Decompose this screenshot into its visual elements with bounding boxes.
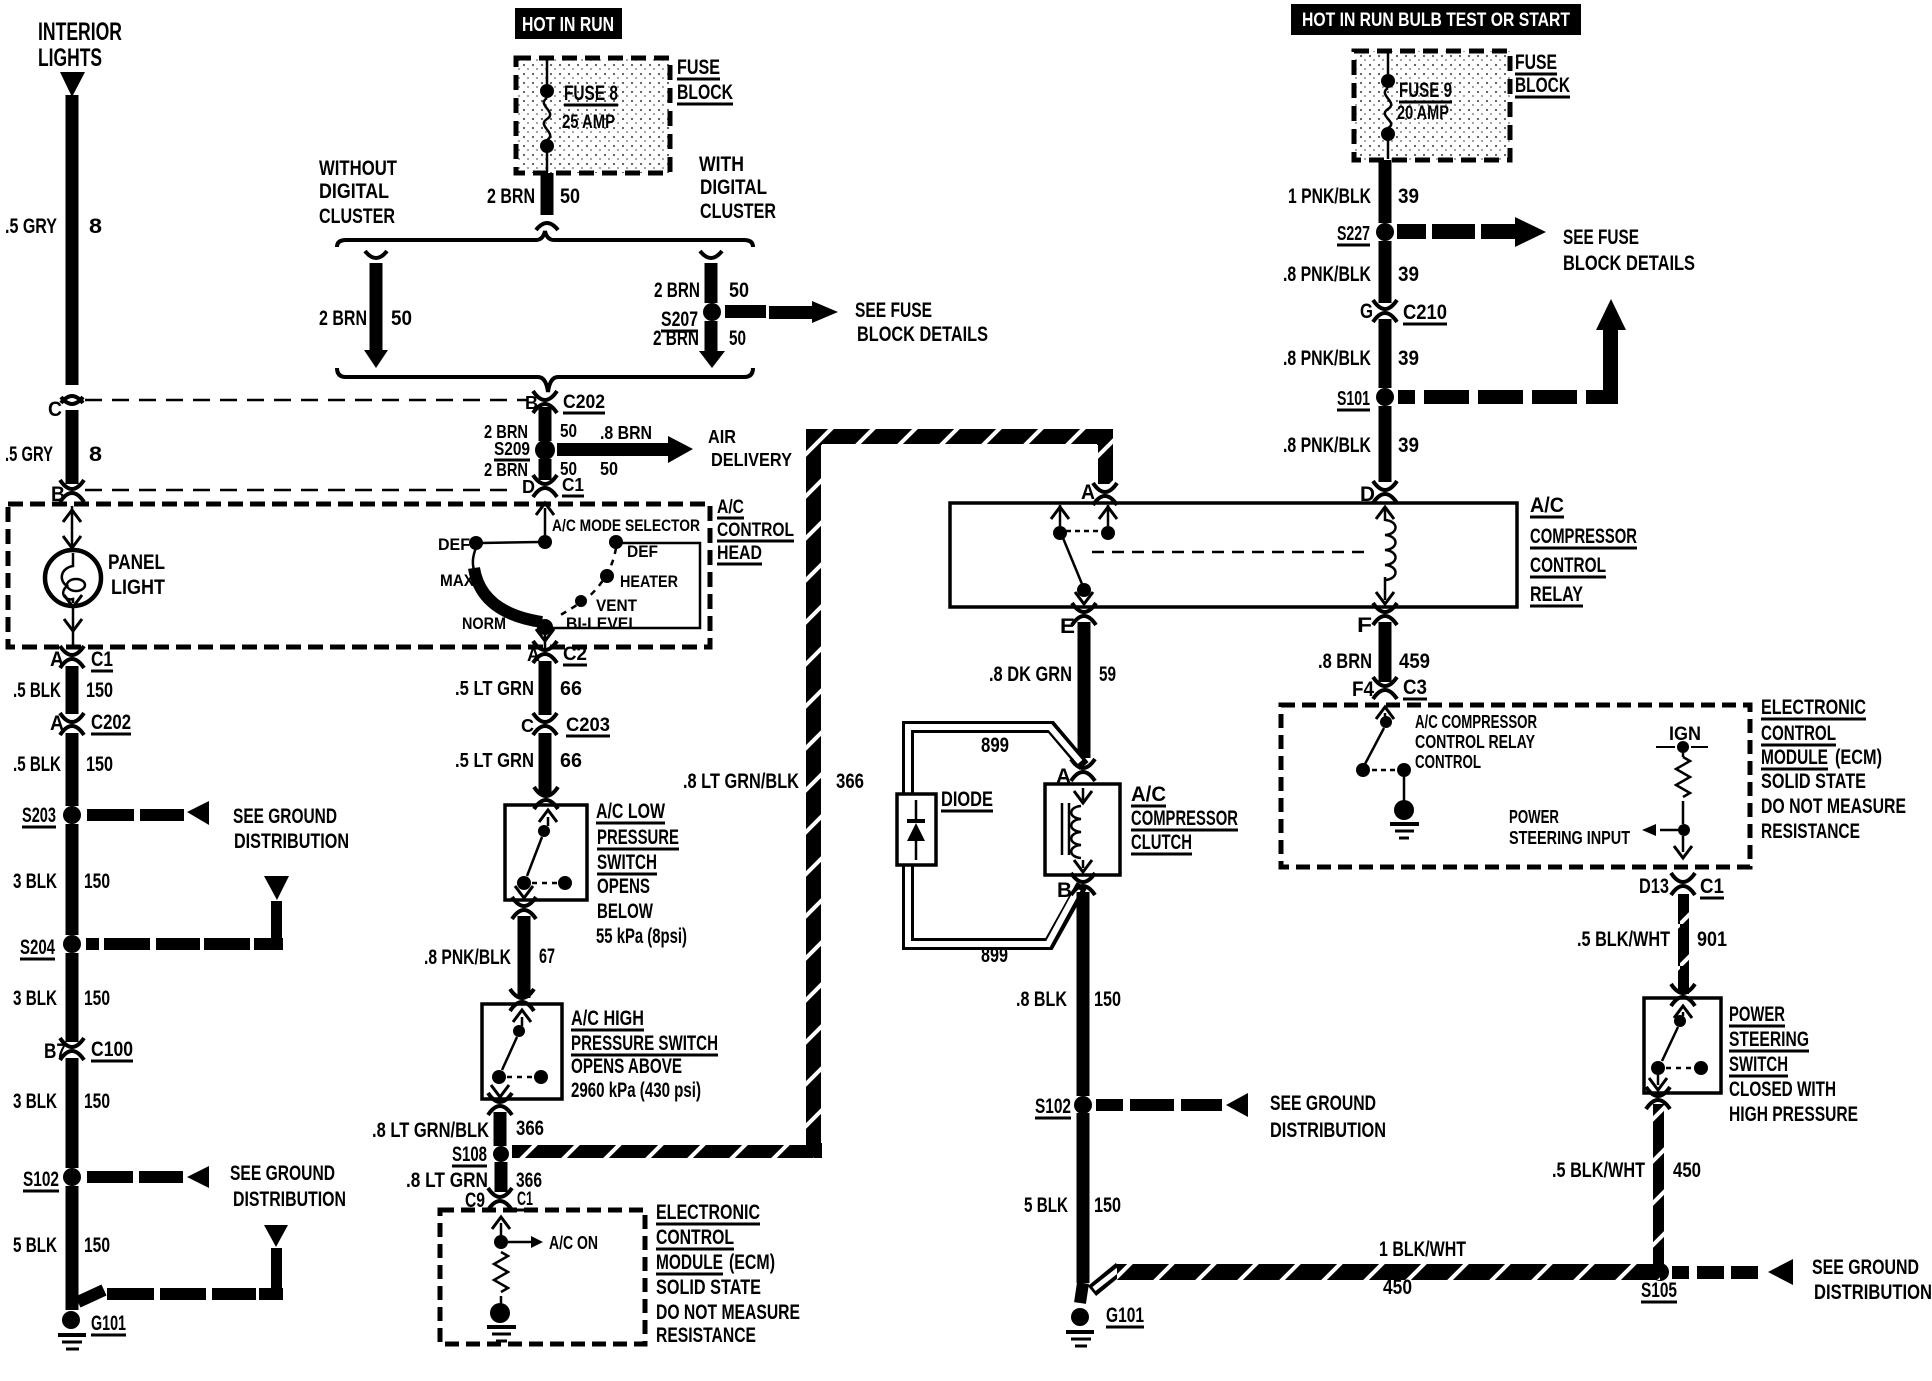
svg-text:A/C: A/C bbox=[1530, 494, 1564, 517]
svg-text:FUSE 9: FUSE 9 bbox=[1399, 79, 1452, 102]
svg-text:DEF: DEF bbox=[627, 542, 658, 561]
svg-text:PANEL: PANEL bbox=[108, 551, 165, 574]
svg-text:B7: B7 bbox=[44, 1040, 66, 1063]
svg-text:CONTROL: CONTROL bbox=[1415, 752, 1481, 772]
svg-text:C1: C1 bbox=[91, 648, 113, 671]
svg-text:8: 8 bbox=[89, 215, 102, 238]
svg-text:DELIVERY: DELIVERY bbox=[711, 450, 792, 470]
svg-text:C: C bbox=[48, 398, 62, 421]
svg-text:.8 PNK/BLK: .8 PNK/BLK bbox=[424, 946, 511, 969]
svg-text:899: 899 bbox=[981, 734, 1009, 757]
svg-text:D: D bbox=[522, 477, 535, 497]
svg-text:C210: C210 bbox=[1403, 301, 1447, 324]
svg-text:50: 50 bbox=[729, 279, 749, 302]
svg-text:901: 901 bbox=[1697, 928, 1727, 951]
svg-text:CLUSTER: CLUSTER bbox=[319, 205, 395, 228]
svg-text:CONTROL RELAY: CONTROL RELAY bbox=[1415, 732, 1535, 752]
svg-text:STEERING: STEERING bbox=[1729, 1028, 1809, 1051]
svg-text:ELECTRONIC: ELECTRONIC bbox=[1761, 696, 1866, 719]
svg-text:VENT: VENT bbox=[596, 596, 638, 615]
svg-text:366: 366 bbox=[516, 1117, 544, 1140]
svg-text:HEATER: HEATER bbox=[620, 572, 678, 591]
svg-text:.8 BRN: .8 BRN bbox=[1318, 650, 1372, 673]
svg-text:.8 LT GRN/BLK: .8 LT GRN/BLK bbox=[683, 770, 799, 793]
svg-text:150: 150 bbox=[1094, 1194, 1121, 1217]
svg-text:.8 BRN: .8 BRN bbox=[600, 423, 652, 443]
svg-text:.5 LT GRN: .5 LT GRN bbox=[455, 750, 534, 772]
svg-text:66: 66 bbox=[560, 678, 582, 700]
svg-text:DEF: DEF bbox=[438, 535, 470, 554]
svg-text:SEE GROUND: SEE GROUND bbox=[233, 805, 337, 828]
svg-text:INTERIOR: INTERIOR bbox=[38, 18, 122, 46]
svg-text:C1: C1 bbox=[562, 475, 584, 495]
svg-text:A/C MODE SELECTOR: A/C MODE SELECTOR bbox=[552, 516, 700, 535]
svg-text:A: A bbox=[50, 712, 64, 735]
svg-text:NORM: NORM bbox=[462, 614, 506, 633]
svg-text:HOT IN RUN BULB TEST OR START: HOT IN RUN BULB TEST OR START bbox=[1302, 10, 1570, 31]
svg-text:50: 50 bbox=[560, 185, 580, 208]
svg-text:.5 LT GRN: .5 LT GRN bbox=[455, 678, 534, 700]
svg-text:150: 150 bbox=[84, 1090, 110, 1113]
svg-text:.5 GRY: .5 GRY bbox=[5, 215, 57, 238]
svg-text:2 BRN: 2 BRN bbox=[487, 185, 535, 208]
svg-text:899: 899 bbox=[981, 944, 1008, 967]
svg-text:CONTROL: CONTROL bbox=[1530, 554, 1606, 577]
svg-text:FUSE: FUSE bbox=[1515, 51, 1557, 74]
svg-text:CONTROL: CONTROL bbox=[717, 520, 794, 541]
svg-text:DO NOT MEASURE: DO NOT MEASURE bbox=[656, 1301, 800, 1324]
svg-text:SEE GROUND: SEE GROUND bbox=[1270, 1092, 1376, 1115]
svg-text:B: B bbox=[1057, 879, 1072, 902]
svg-text:SOLID STATE: SOLID STATE bbox=[656, 1276, 761, 1299]
svg-text:S227: S227 bbox=[1337, 223, 1370, 245]
svg-text:OPENS ABOVE: OPENS ABOVE bbox=[571, 1055, 682, 1078]
svg-text:.5 BLK/WHT: .5 BLK/WHT bbox=[1577, 928, 1670, 951]
svg-text:HOT IN RUN: HOT IN RUN bbox=[522, 14, 614, 36]
svg-text:A/C LOW: A/C LOW bbox=[596, 800, 665, 823]
svg-text:SWITCH: SWITCH bbox=[1729, 1053, 1788, 1076]
svg-text:PRESSURE SWITCH: PRESSURE SWITCH bbox=[571, 1032, 718, 1055]
svg-text:.5 GRY: .5 GRY bbox=[5, 443, 53, 466]
svg-text:39: 39 bbox=[1398, 185, 1419, 208]
svg-text:S102: S102 bbox=[23, 1168, 59, 1191]
svg-text:RELAY: RELAY bbox=[1530, 583, 1583, 606]
svg-text:50: 50 bbox=[600, 459, 618, 479]
svg-text:WITH: WITH bbox=[699, 153, 744, 176]
svg-text:SWITCH: SWITCH bbox=[597, 851, 657, 874]
svg-text:150: 150 bbox=[84, 1234, 110, 1257]
svg-text:HIGH PRESSURE: HIGH PRESSURE bbox=[1729, 1103, 1858, 1126]
svg-text:66: 66 bbox=[560, 750, 582, 772]
svg-text:DIGITAL: DIGITAL bbox=[700, 176, 767, 199]
svg-text:F4: F4 bbox=[1352, 678, 1374, 701]
svg-text:.5 BLK/WHT: .5 BLK/WHT bbox=[1552, 1159, 1645, 1182]
svg-text:POWER: POWER bbox=[1729, 1003, 1785, 1026]
svg-text:(ECM): (ECM) bbox=[1835, 746, 1882, 769]
svg-text:RESISTANCE: RESISTANCE bbox=[1761, 820, 1860, 843]
svg-text:150: 150 bbox=[1094, 988, 1121, 1011]
svg-text:59: 59 bbox=[1099, 663, 1116, 686]
svg-text:S203: S203 bbox=[22, 804, 56, 827]
svg-text:C3: C3 bbox=[1403, 676, 1427, 699]
svg-text:A: A bbox=[50, 648, 64, 671]
svg-text:A: A bbox=[1056, 765, 1071, 788]
svg-text:C2: C2 bbox=[563, 644, 587, 665]
svg-text:DO NOT MEASURE: DO NOT MEASURE bbox=[1761, 795, 1906, 818]
svg-text:39: 39 bbox=[1398, 347, 1419, 370]
svg-text:F: F bbox=[1357, 614, 1372, 637]
svg-text:BELOW: BELOW bbox=[597, 900, 653, 923]
svg-text:ELECTRONIC: ELECTRONIC bbox=[656, 1201, 760, 1224]
svg-text:450: 450 bbox=[1673, 1159, 1701, 1182]
svg-text:.5 BLK: .5 BLK bbox=[13, 679, 61, 702]
svg-text:OPENS: OPENS bbox=[597, 875, 650, 898]
svg-text:BLOCK: BLOCK bbox=[677, 81, 733, 104]
svg-text:IGN: IGN bbox=[1669, 724, 1701, 745]
svg-text:C9: C9 bbox=[465, 1189, 485, 1212]
svg-text:COMPRESSOR: COMPRESSOR bbox=[1530, 525, 1637, 548]
svg-text:366: 366 bbox=[836, 770, 864, 793]
svg-text:S102: S102 bbox=[1035, 1095, 1071, 1118]
svg-text:SEE FUSE: SEE FUSE bbox=[1563, 226, 1639, 249]
svg-text:A/C ON: A/C ON bbox=[549, 1233, 598, 1253]
svg-text:50: 50 bbox=[729, 327, 746, 350]
svg-text:A/C HIGH: A/C HIGH bbox=[571, 1007, 644, 1030]
svg-text:POWER: POWER bbox=[1509, 807, 1559, 827]
svg-text:BLOCK DETAILS: BLOCK DETAILS bbox=[857, 323, 988, 346]
svg-text:C1: C1 bbox=[1700, 875, 1724, 898]
svg-text:2960 kPa (430 psi): 2960 kPa (430 psi) bbox=[571, 1079, 701, 1102]
svg-text:S101: S101 bbox=[1337, 388, 1370, 410]
svg-text:150: 150 bbox=[86, 753, 113, 776]
svg-text:A: A bbox=[1081, 481, 1095, 504]
svg-text:LIGHTS: LIGHTS bbox=[38, 44, 102, 72]
svg-text:5 BLK: 5 BLK bbox=[1024, 1194, 1068, 1217]
svg-text:MODULE: MODULE bbox=[1761, 746, 1828, 769]
svg-text:STEERING INPUT: STEERING INPUT bbox=[1509, 828, 1630, 848]
svg-text:150: 150 bbox=[84, 987, 110, 1010]
svg-text:150: 150 bbox=[84, 870, 110, 893]
svg-text:55 kPa (8psi): 55 kPa (8psi) bbox=[596, 925, 687, 948]
svg-text:BLOCK DETAILS: BLOCK DETAILS bbox=[1563, 252, 1695, 275]
svg-text:CONTROL: CONTROL bbox=[1761, 722, 1836, 745]
svg-text:2 BRN: 2 BRN bbox=[653, 327, 699, 350]
svg-text:CONTROL: CONTROL bbox=[656, 1226, 734, 1249]
svg-text:SEE GROUND: SEE GROUND bbox=[230, 1162, 335, 1185]
svg-text:C202: C202 bbox=[91, 711, 131, 734]
svg-text:PRESSURE: PRESSURE bbox=[597, 826, 679, 849]
svg-text:CLUSTER: CLUSTER bbox=[700, 200, 776, 223]
svg-text:A/C: A/C bbox=[717, 497, 744, 518]
svg-text:SEE FUSE: SEE FUSE bbox=[855, 299, 932, 322]
svg-text:MODULE: MODULE bbox=[656, 1251, 723, 1274]
svg-text:.8 PNK/BLK: .8 PNK/BLK bbox=[1283, 263, 1371, 286]
svg-text:FUSE 8: FUSE 8 bbox=[564, 82, 618, 105]
svg-text:DISTRIBUTION: DISTRIBUTION bbox=[1270, 1119, 1386, 1142]
svg-text:S204: S204 bbox=[20, 936, 55, 959]
svg-text:SEE GROUND: SEE GROUND bbox=[1812, 1256, 1919, 1279]
svg-text:DISTRIBUTION: DISTRIBUTION bbox=[1814, 1281, 1932, 1304]
svg-text:3 BLK: 3 BLK bbox=[13, 870, 57, 893]
svg-text:DIODE: DIODE bbox=[941, 788, 993, 811]
svg-text:3 BLK: 3 BLK bbox=[13, 1090, 57, 1113]
svg-text:WITHOUT: WITHOUT bbox=[319, 157, 397, 180]
svg-text:SOLID STATE: SOLID STATE bbox=[1761, 770, 1866, 793]
svg-text:A/C COMPRESSOR: A/C COMPRESSOR bbox=[1415, 712, 1537, 732]
svg-text:39: 39 bbox=[1398, 263, 1419, 286]
svg-text:1 PNK/BLK: 1 PNK/BLK bbox=[1288, 185, 1371, 208]
svg-text:459: 459 bbox=[1399, 650, 1430, 673]
svg-text:67: 67 bbox=[539, 945, 555, 968]
svg-text:D: D bbox=[1360, 483, 1375, 506]
svg-text:LIGHT: LIGHT bbox=[111, 576, 165, 599]
svg-text:G: G bbox=[1360, 300, 1373, 323]
svg-text:S209: S209 bbox=[494, 439, 530, 459]
svg-text:AIR: AIR bbox=[708, 427, 736, 447]
svg-text:G101: G101 bbox=[91, 1312, 126, 1335]
svg-text:.8 LT GRN/BLK: .8 LT GRN/BLK bbox=[372, 1119, 489, 1142]
svg-text:G101: G101 bbox=[1106, 1304, 1144, 1327]
svg-text:450: 450 bbox=[1383, 1276, 1412, 1299]
svg-text:BI-LEVEL: BI-LEVEL bbox=[566, 614, 638, 633]
svg-text:DISTRIBUTION: DISTRIBUTION bbox=[234, 830, 349, 853]
svg-text:C203: C203 bbox=[566, 715, 610, 736]
svg-text:C202: C202 bbox=[563, 392, 605, 413]
svg-text:DIGITAL: DIGITAL bbox=[319, 180, 389, 203]
svg-text:FUSE: FUSE bbox=[677, 56, 720, 79]
svg-text:B: B bbox=[525, 393, 538, 413]
svg-text:(ECM): (ECM) bbox=[729, 1251, 775, 1274]
svg-text:CLUTCH: CLUTCH bbox=[1131, 831, 1192, 854]
svg-text:50: 50 bbox=[391, 307, 412, 330]
svg-text:S108: S108 bbox=[452, 1143, 487, 1166]
svg-text:39: 39 bbox=[1398, 434, 1419, 457]
svg-text:C: C bbox=[521, 716, 534, 736]
svg-text:CLOSED WITH: CLOSED WITH bbox=[1729, 1078, 1836, 1101]
svg-text:A: A bbox=[527, 645, 540, 665]
svg-text:COMPRESSOR: COMPRESSOR bbox=[1131, 807, 1238, 830]
svg-text:8: 8 bbox=[89, 443, 102, 466]
svg-text:50: 50 bbox=[560, 421, 577, 441]
svg-text:C100: C100 bbox=[91, 1038, 133, 1061]
svg-text:RESISTANCE: RESISTANCE bbox=[656, 1324, 756, 1347]
svg-text:D13: D13 bbox=[1639, 875, 1669, 898]
svg-text:.8 PNK/BLK: .8 PNK/BLK bbox=[1283, 434, 1371, 457]
svg-text:1 BLK/WHT: 1 BLK/WHT bbox=[1379, 1238, 1466, 1261]
svg-text:A/C: A/C bbox=[1131, 783, 1166, 806]
svg-text:DISTRIBUTION: DISTRIBUTION bbox=[233, 1188, 346, 1211]
svg-text:C1: C1 bbox=[517, 1189, 533, 1210]
svg-text:S105: S105 bbox=[1641, 1279, 1677, 1302]
svg-text:20 AMP: 20 AMP bbox=[1397, 103, 1449, 124]
svg-text:E: E bbox=[1060, 615, 1075, 638]
svg-text:.8 DK GRN: .8 DK GRN bbox=[989, 663, 1072, 686]
svg-text:25 AMP: 25 AMP bbox=[562, 112, 615, 133]
svg-text:2 BRN: 2 BRN bbox=[654, 279, 700, 302]
svg-text:MAX: MAX bbox=[440, 571, 475, 590]
svg-text:.8 PNK/BLK: .8 PNK/BLK bbox=[1283, 347, 1371, 370]
svg-text:150: 150 bbox=[86, 679, 113, 702]
svg-text:.8 BLK: .8 BLK bbox=[1016, 988, 1067, 1011]
svg-text:B: B bbox=[51, 483, 65, 506]
svg-text:HEAD: HEAD bbox=[717, 543, 762, 564]
svg-text:5 BLK: 5 BLK bbox=[13, 1234, 57, 1257]
svg-text:2 BRN: 2 BRN bbox=[319, 307, 367, 330]
svg-text:3 BLK: 3 BLK bbox=[13, 987, 57, 1010]
svg-text:.5 BLK: .5 BLK bbox=[13, 753, 61, 776]
svg-text:BLOCK: BLOCK bbox=[1515, 74, 1570, 97]
